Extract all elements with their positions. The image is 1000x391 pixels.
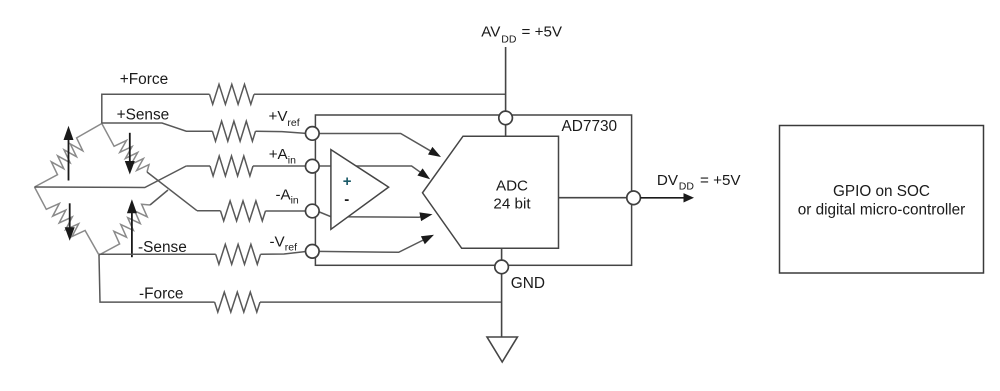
svg-text:+Force: +Force bbox=[120, 71, 168, 88]
resistor +Force bbox=[210, 84, 255, 104]
resistor +Sense bbox=[212, 121, 255, 141]
op-amp buffer bbox=[331, 150, 389, 230]
pin AVDD bbox=[499, 111, 513, 125]
wire -Ain through amp to ADC bbox=[317, 211, 429, 217]
svg-text:DD: DD bbox=[501, 33, 517, 45]
svg-text:-Sense: -Sense bbox=[138, 239, 187, 256]
GPIO controller box bbox=[780, 126, 984, 274]
resistor -Ain bbox=[221, 201, 266, 221]
svg-text:24 bit: 24 bit bbox=[493, 196, 531, 213]
wire +Sense bbox=[102, 123, 213, 131]
pin GND bbox=[495, 260, 509, 274]
resistor +Ain bbox=[210, 156, 253, 176]
GND wire down bbox=[501, 273, 503, 338]
wire -Vref to ADC bbox=[317, 237, 430, 253]
strain arrow up (bottom-right gauge) bbox=[131, 213, 133, 257]
svg-text:DV: DV bbox=[657, 172, 679, 189]
wire -Force to GND rail bbox=[260, 301, 502, 303]
svg-text:ref: ref bbox=[285, 242, 297, 254]
pin -Ain bbox=[306, 204, 320, 218]
resistor -Force bbox=[215, 292, 260, 312]
wire +Ain bbox=[186, 165, 210, 167]
svg-text:+Sense: +Sense bbox=[117, 107, 170, 124]
pin -Vref bbox=[306, 245, 320, 259]
svg-text:GPIO on SOC: GPIO on SOC bbox=[833, 183, 930, 200]
svg-text:AD7730: AD7730 bbox=[562, 118, 618, 135]
svg-text:= +5V: = +5V bbox=[700, 172, 741, 189]
wire +Force to AVDD rail bbox=[254, 93, 506, 95]
wire -Sense bbox=[99, 253, 216, 255]
DVDD output arrow bbox=[640, 197, 685, 199]
wire -Force bbox=[99, 255, 215, 302]
ADC 24 bit block bbox=[423, 136, 559, 248]
wire bridge right node to -Ain bbox=[147, 172, 197, 211]
AVDD supply wire bbox=[505, 47, 507, 112]
pin DVDD bbox=[627, 191, 641, 205]
GND pin stub from ADC bbox=[501, 248, 503, 261]
svg-text:ADC: ADC bbox=[496, 178, 528, 195]
strain-gauge bridge resistor (bottom-left) bbox=[35, 187, 100, 255]
wire bridge bottom-right to right node junction bbox=[150, 190, 168, 205]
svg-text:GND: GND bbox=[511, 275, 545, 292]
svg-text:-A: -A bbox=[276, 186, 292, 203]
wire +Sense to +Vref pin bbox=[256, 131, 307, 133]
svg-text:-V: -V bbox=[270, 233, 286, 250]
pin +Ain bbox=[306, 159, 320, 173]
pin +Vref bbox=[306, 127, 320, 141]
ground symbol bbox=[487, 337, 517, 362]
svg-text:-Force: -Force bbox=[139, 286, 183, 303]
AD7730 IC outline bbox=[315, 115, 631, 265]
wire +Ain through amp to ADC bbox=[317, 166, 427, 177]
strain arrow up (top-left gauge) bbox=[68, 139, 70, 181]
strain-gauge bridge resistor (top-left) bbox=[35, 124, 102, 188]
resistor -Sense bbox=[216, 244, 261, 264]
svg-text:-: - bbox=[344, 191, 349, 208]
svg-text:= +5V: = +5V bbox=[522, 24, 563, 41]
svg-text:+A: +A bbox=[269, 146, 289, 163]
wire -Sense to -Vref pin bbox=[261, 252, 307, 255]
svg-text:in: in bbox=[291, 194, 299, 206]
AVDD pin stub to ADC bbox=[505, 124, 507, 137]
wire ADC output to DVDD pin bbox=[559, 197, 634, 199]
svg-text:or digital micro-controller: or digital micro-controller bbox=[798, 201, 965, 218]
svg-text:+V: +V bbox=[269, 108, 289, 125]
svg-text:+: + bbox=[343, 173, 352, 190]
svg-text:in: in bbox=[288, 154, 296, 166]
svg-text:DD: DD bbox=[679, 181, 695, 193]
strain arrow down (bottom-left gauge) bbox=[69, 203, 71, 228]
wire -Ain to pin bbox=[266, 210, 307, 212]
wire +Force bbox=[102, 94, 210, 123]
wire bridge left node to +Ain bbox=[35, 166, 187, 188]
strain-gauge bridge resistor (bottom-right) bbox=[99, 204, 150, 255]
wire +Ain to pin bbox=[253, 165, 306, 167]
svg-text:ref: ref bbox=[287, 117, 299, 129]
strain arrow down (top-right gauge) bbox=[129, 133, 131, 162]
wire +Vref to ADC bbox=[317, 134, 437, 155]
wire -Ain bbox=[197, 210, 221, 212]
strain-gauge bridge resistor (top-right) bbox=[102, 124, 149, 173]
svg-text:AV: AV bbox=[481, 24, 501, 41]
